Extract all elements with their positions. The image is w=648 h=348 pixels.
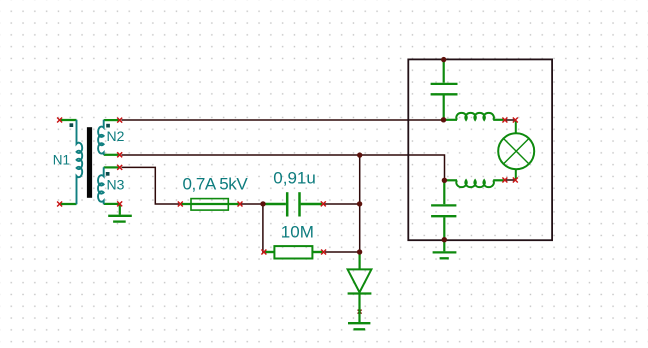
svg-text:0,91u: 0,91u: [273, 168, 316, 187]
svg-text:N2: N2: [107, 128, 125, 144]
svg-text:0,7A 5kV: 0,7A 5kV: [183, 175, 249, 194]
svg-text:10M: 10M: [281, 222, 314, 241]
svg-text:N1: N1: [53, 153, 70, 168]
svg-text:N3: N3: [107, 177, 125, 193]
